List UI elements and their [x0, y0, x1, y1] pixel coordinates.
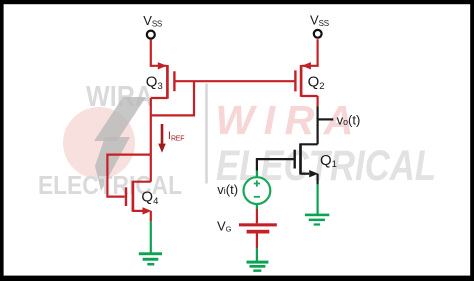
- battery VG long plate: [239, 223, 277, 226]
- transistor Q1 channel bar: [299, 143, 302, 174]
- wire Q4 gate loop: [107, 155, 150, 197]
- wire Q2 drain jog: [301, 95, 318, 97]
- transistor Q1 gate bar: [294, 150, 296, 169]
- transistor Q4 gate bar: [125, 187, 127, 206]
- terminal VSS left: [147, 31, 155, 39]
- wire Q1 source jog: [301, 173, 310, 175]
- watermark divider line: [205, 84, 208, 184]
- wire Q1 source down black: [317, 174, 319, 185]
- battery VG short plate: [247, 230, 270, 234]
- wire Q2 drain down red part: [317, 96, 319, 107]
- transistor Q2 channel bar: [300, 65, 303, 97]
- wire Q4 source to ground green: [150, 222, 152, 253]
- wire vi source top green stub: [256, 171, 258, 178]
- wire VSS right to Q2 source: [295, 39, 317, 106]
- watermark left logo bolt upper: [94, 97, 146, 141]
- source vi(t) circle: [244, 177, 271, 204]
- vi minus sign: [254, 196, 260, 198]
- wire Q1 drain jog: [301, 143, 318, 145]
- arrow IREF annotation: [161, 124, 164, 146]
- wire gate bus Q3 to Q2: [174, 80, 295, 82]
- watermark left logo bolt lower: [95, 137, 130, 191]
- wire Q3 drain jog: [151, 97, 168, 99]
- wire Q3 diode connection: [151, 81, 194, 115]
- arrow Q1 source (NMOS, points right out): [309, 170, 318, 177]
- transistor Q3 channel bar: [166, 65, 169, 99]
- wire vo tap: [318, 118, 334, 120]
- arrow Q4 source (NMOS, points right out): [143, 207, 152, 214]
- wire Q2 drain to Q1 drain black: [317, 107, 319, 145]
- transistor Q3 gate bar: [173, 71, 175, 91]
- terminal VSS right: [314, 30, 322, 38]
- svg-text:vo(t): vo(t): [337, 112, 361, 127]
- wire Q4 source jog: [133, 210, 143, 212]
- wire VSS left to Q3 source: [151, 40, 167, 66]
- transistor Q2 gate bar: [294, 70, 296, 91]
- wire battery to ground green: [256, 248, 258, 261]
- ground under Q1: [305, 214, 329, 226]
- transistor Q4 channel bar: [132, 181, 135, 212]
- wire vi bottom green stub: [256, 204, 258, 209]
- wire Q4 source down red: [150, 211, 152, 222]
- watermark left logo disc: [63, 107, 135, 179]
- arrow Q2 source (PMOS, points left into channel): [302, 62, 311, 69]
- wire Q1 gate lead to vi source: [257, 159, 295, 170]
- ground under Q4: [139, 252, 162, 265]
- vi plus sign: [254, 180, 260, 186]
- arrow Q3 source (PMOS, points right into channel): [158, 62, 167, 69]
- wire Q4 drain jog: [133, 181, 151, 183]
- svg-text:vi(t): vi(t): [217, 182, 238, 197]
- ground under battery: [247, 261, 269, 272]
- wire battery down red: [256, 234, 258, 249]
- wire Q1 source to ground green: [317, 184, 319, 214]
- wire vi to battery red: [256, 209, 258, 223]
- wire Q3 drain down to Q4 drain: [150, 98, 152, 182]
